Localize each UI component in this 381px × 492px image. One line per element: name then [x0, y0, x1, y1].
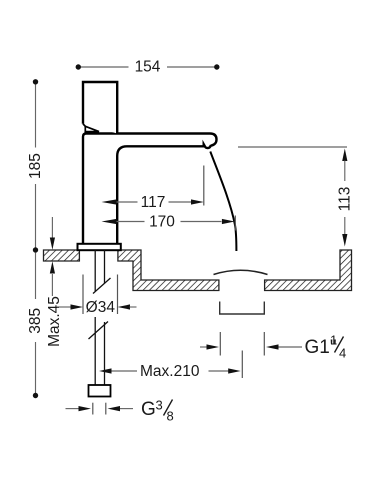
svg-text:G: G — [141, 399, 156, 420]
svg-text:8: 8 — [167, 409, 174, 424]
water stream — [210, 152, 236, 252]
svg-text:Max.45: Max.45 — [46, 296, 63, 347]
drain tailpiece bracket — [220, 302, 265, 315]
dim 185 left — [35, 84, 37, 248]
dim 154 top — [81, 66, 215, 68]
svg-text:113: 113 — [337, 187, 354, 212]
dim 385 left — [35, 253, 37, 394]
base plate — [78, 244, 121, 250]
dim Max.45 — [51, 217, 53, 239]
handle lever block — [83, 82, 117, 134]
break slash 2 — [89, 322, 109, 340]
tail pipe below counter — [94, 250, 96, 291]
svg-text:170: 170 — [149, 214, 175, 231]
dim 170 — [102, 219, 117, 224]
countertop left hatched bar — [44, 250, 80, 261]
hose end fitting — [89, 385, 111, 397]
dim 117 — [102, 199, 117, 204]
svg-text:3: 3 — [156, 398, 163, 413]
svg-text:4: 4 — [339, 346, 346, 361]
handle chamfer — [83, 124, 85, 127]
svg-text:117: 117 — [141, 194, 166, 211]
countertop right + step + basin floor left bar (hatched) — [118, 250, 219, 291]
dim Max.210 — [99, 368, 112, 373]
dim G1"1/4 — [200, 346, 208, 348]
dim 113 right — [238, 146, 347, 148]
basin floor right bar + right wall (hatched) — [265, 250, 352, 291]
svg-text:185: 185 — [27, 153, 44, 179]
dim G3/8 bottom — [66, 408, 80, 410]
dim O34 — [82, 275, 84, 315]
svg-text:Ø34: Ø34 — [86, 299, 116, 316]
drain cover arc — [214, 270, 268, 274]
break slash 1 — [93, 278, 111, 294]
flexible hose lines — [94, 317, 96, 386]
svg-text:1: 1 — [330, 333, 337, 348]
handle lever wedge — [85, 126, 99, 131]
svg-text:Max.210: Max.210 — [140, 363, 200, 380]
svg-text:385: 385 — [27, 308, 44, 334]
svg-text:154: 154 — [135, 59, 161, 76]
faucet body and spout outline — [83, 134, 217, 248]
